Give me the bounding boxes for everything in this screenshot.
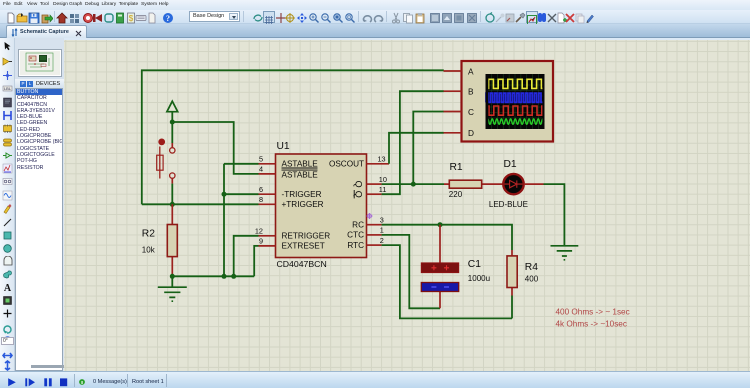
svg-text:4k Ohms -> ~10sec: 4k Ohms -> ~10sec	[556, 319, 627, 328]
origin marker	[367, 213, 373, 219]
svg-text:9: 9	[259, 237, 263, 246]
svg-text:+TRIGGER: +TRIGGER	[282, 200, 324, 209]
svg-text:EXTRESET: EXTRESET	[282, 242, 325, 251]
wire button bottom to trigger rail	[171, 184, 173, 205]
pin 4 ASTABLE-bar	[259, 165, 319, 180]
svg-text:5: 5	[259, 155, 263, 164]
svg-text:ASTABLE: ASTABLE	[282, 159, 319, 168]
svg-text:C: C	[468, 107, 474, 117]
pin 5 ASTABLE	[259, 155, 319, 169]
svg-text:RETRIGGER: RETRIGGER	[282, 232, 331, 241]
svg-text:11: 11	[379, 185, 387, 194]
annotation text	[556, 307, 630, 328]
node Q junction	[411, 182, 416, 187]
capacitor C1	[421, 225, 490, 309]
pin 8 +TRIGGER	[259, 195, 324, 209]
wire D1 to ground	[524, 184, 564, 246]
svg-text:A: A	[468, 66, 474, 76]
svg-text:1: 1	[380, 226, 384, 235]
node ground rail junction pin5/6	[222, 274, 227, 279]
ground symbol left	[158, 276, 187, 301]
node RC junction	[438, 222, 443, 227]
wire RTC to R4 bottom	[382, 245, 512, 318]
pin 12 RETRIGGER	[255, 227, 330, 241]
wire Q to R1	[382, 183, 444, 185]
LED D1	[489, 159, 528, 209]
node trigger rail junction	[170, 202, 175, 207]
button (pushbutton)	[157, 139, 175, 184]
svg-text:LED-BLUE: LED-BLUE	[489, 200, 528, 209]
wire power junction to pin 4	[172, 122, 258, 174]
svg-text:8: 8	[259, 195, 263, 204]
pin 13 OSCOUT	[329, 155, 389, 169]
oscilloscope	[444, 61, 554, 142]
svg-text:220: 220	[449, 190, 463, 199]
node ground rail junction pin12	[231, 274, 236, 279]
pin 2 RTC	[347, 236, 384, 250]
wire RC to R4 top	[382, 225, 512, 250]
pin 10 Q	[353, 175, 387, 188]
pin 11 Q-bar	[353, 185, 386, 198]
svg-text:400 Ohms -> ~ 1sec: 400 Ohms -> ~ 1sec	[556, 307, 630, 316]
svg-text:1000u: 1000u	[468, 274, 490, 283]
svg-text:U1: U1	[277, 141, 290, 152]
svg-text:D1: D1	[504, 159, 517, 170]
svg-text:RTC: RTC	[347, 241, 364, 250]
wire OSCOUT to scope D	[389, 133, 444, 164]
wire CTC to C1 bottom	[382, 235, 440, 308]
wire top rail from left vertical to scope A	[142, 70, 444, 204]
svg-text:-TRIGGER: -TRIGGER	[282, 190, 322, 199]
svg-text:Q: Q	[353, 181, 363, 188]
svg-text:2: 2	[380, 236, 384, 245]
node pin6 junction	[222, 192, 227, 197]
svg-text:A: A	[4, 283, 12, 293]
svg-text:10: 10	[379, 175, 387, 184]
wire power junction down to button	[171, 122, 173, 143]
power terminal (up arrow)	[167, 101, 178, 122]
resistor R4	[507, 250, 539, 318]
IC U1 CD4047BCN body	[276, 141, 367, 269]
pin 1 CTC	[347, 226, 384, 240]
svg-text:400: 400	[525, 275, 539, 284]
resistor R1	[444, 162, 503, 199]
svg-text:Q: Q	[353, 191, 363, 198]
pin 3 RC	[352, 216, 384, 230]
node ground rail junction at R2	[170, 274, 175, 279]
svg-text:10k: 10k	[142, 246, 156, 255]
svg-text:R4: R4	[525, 262, 538, 273]
svg-text:RC: RC	[352, 220, 364, 229]
svg-text:R2: R2	[142, 229, 155, 240]
svg-text:CTC: CTC	[347, 231, 364, 240]
wire pin 12 to ground rail	[234, 236, 259, 276]
ground symbol right	[551, 246, 579, 260]
svg-text:4: 4	[259, 165, 263, 174]
svg-text:6: 6	[259, 185, 263, 194]
ground rail under R2	[172, 275, 254, 277]
svg-text:LBL: LBL	[4, 86, 12, 91]
pin 9 EXTRESET	[259, 237, 325, 251]
svg-text:OSCOUT: OSCOUT	[329, 159, 364, 168]
pin 6 -TRIGGER	[259, 185, 322, 199]
wire Q junction to scope C	[413, 112, 444, 185]
svg-text:C1: C1	[468, 259, 481, 270]
svg-text:$: $	[129, 14, 134, 23]
svg-text:D: D	[468, 128, 474, 138]
svg-text:CD4047BCN: CD4047BCN	[277, 259, 327, 269]
svg-text:3: 3	[380, 216, 384, 225]
node power junction	[170, 120, 175, 125]
wire pin 9 to ground rail	[254, 246, 258, 276]
svg-text:13: 13	[378, 155, 386, 164]
svg-text:?: ?	[166, 14, 170, 23]
svg-text:R1: R1	[450, 162, 463, 173]
resistor R2	[142, 204, 178, 276]
svg-text:ASTABLE: ASTABLE	[282, 171, 319, 180]
wire Q-bar to scope B	[382, 91, 444, 194]
wire trigger rail to pin 8	[142, 203, 259, 205]
svg-text:12: 12	[255, 227, 263, 236]
svg-text:B: B	[468, 87, 474, 97]
wire pins 5,6 node down to ground rail	[224, 164, 259, 276]
